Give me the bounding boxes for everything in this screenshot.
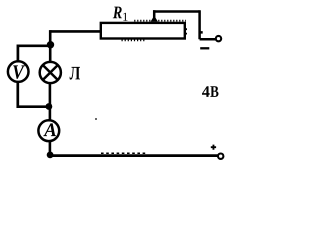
rheostat wiper arm [151,10,159,22]
label R [113,7,122,19]
terminal minus [216,36,221,41]
ammeter PA1 [38,120,59,141]
label plus sign [211,145,216,150]
label minus sign [200,47,209,49]
terminal plus [218,154,223,159]
wire to minus terminal [200,38,216,41]
wire voltmeter branch top [18,46,50,62]
rheostat R1 body [101,21,187,41]
wire top horizontal [50,30,100,33]
wire right vertical [200,10,203,39]
voltmeter PV1 [8,61,29,82]
wire main column upper [49,30,52,62]
wire wiper to right [153,10,200,13]
wire ammeter bottom [49,141,52,156]
wire voltmeter branch bottom [18,83,49,107]
label subscript 1 [123,13,127,21]
label Л [70,67,80,80]
node junction B [46,103,53,110]
wire bottom horizontal [50,154,218,157]
node junction A [47,41,54,48]
wire lamp to ammeter [49,83,52,121]
lamp L (Л) [40,62,61,83]
label 4V battery value [202,86,210,97]
node junction C [47,152,54,159]
